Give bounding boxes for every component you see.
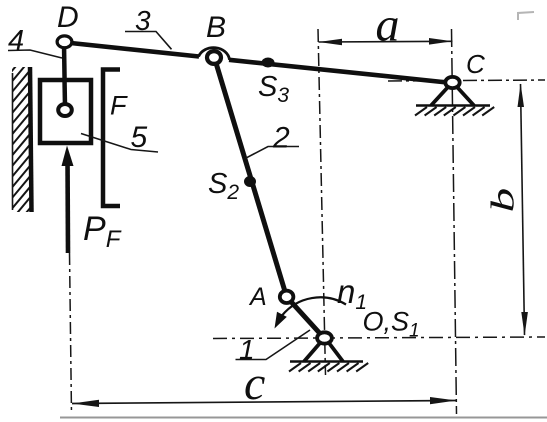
svg-text:D: D: [57, 1, 79, 34]
leader for label 5: [81, 134, 158, 153]
joint B: [207, 51, 221, 64]
svg-text:4: 4: [8, 25, 24, 57]
svg-text:F: F: [110, 91, 128, 121]
support hatching at O: [289, 363, 368, 372]
centre of mass S2 dot: [244, 176, 256, 187]
force arrow P_F head: [62, 146, 74, 167]
svg-text:5: 5: [131, 121, 148, 154]
leader for label 3: [125, 32, 172, 50]
dimension c line: [72, 401, 456, 404]
svg-text:2: 2: [272, 122, 290, 155]
guide bracket (right of slider): [103, 70, 120, 207]
dimension c left arrowhead: [72, 400, 99, 407]
dimension b line: [521, 84, 525, 335]
svg-text:C: C: [466, 49, 485, 79]
wall right thick edge: [30, 67, 32, 212]
svg-text:3: 3: [135, 5, 151, 36]
hump arc over joint B: [199, 48, 230, 60]
slider pin joint: [58, 104, 72, 116]
force arrow P_F shaft: [65, 157, 70, 253]
dimension c right arrowhead: [430, 397, 456, 404]
link 2 (B to A): [215, 58, 287, 297]
support hatching at C: [415, 107, 494, 116]
svg-text:b: b: [485, 188, 521, 213]
vertical centerline below force arrow (dash-dot): [70, 253, 72, 414]
support legs at O: [304, 343, 343, 362]
link 3 segment D to B hump: [66, 43, 199, 57]
dimension a left arrowhead: [319, 39, 343, 46]
svg-text:A: A: [248, 283, 267, 311]
scan border bottom: [60, 417, 547, 419]
rotation arrow n1 head: [275, 312, 287, 329]
joint C: [445, 77, 459, 88]
vertical centerline through C (dash-dot): [452, 29, 457, 414]
leader for label 2: [246, 147, 299, 159]
link 1 (A to O): [287, 297, 325, 339]
dimension a right arrowhead: [429, 38, 453, 45]
joint A: [280, 291, 294, 303]
dimension a line: [319, 40, 453, 43]
support legs at C: [431, 87, 474, 106]
wall left thin edge: [12, 73, 14, 210]
slider block 5: [40, 80, 91, 143]
support base at C: [416, 104, 490, 107]
svg-text:a: a: [376, 0, 400, 52]
centre of mass S3 dot: [262, 58, 275, 68]
svg-text:1: 1: [239, 334, 255, 365]
dimension b top arrowhead: [518, 84, 525, 108]
joint O: [317, 332, 332, 343]
link 4 (D to slider pin): [64, 44, 65, 106]
horizontal centerline through O (dash-dot): [213, 337, 545, 339]
dimension b bottom arrowhead: [521, 312, 528, 336]
joint D: [57, 36, 72, 48]
leader for label 4: [8, 50, 62, 58]
link 3 segment B hump to C: [229, 60, 452, 83]
support base at O: [290, 360, 363, 363]
horizontal centerline through C (dash-dot): [388, 80, 545, 81]
leader for label 1: [236, 330, 311, 360]
vertical centerline through O (dash-dot): [318, 29, 326, 375]
svg-text:B: B: [206, 11, 226, 44]
faint scan mark top right: [518, 12, 534, 20]
link 4 segment inside slider: [62, 79, 67, 106]
rotation arrow n1 arc: [282, 297, 346, 315]
